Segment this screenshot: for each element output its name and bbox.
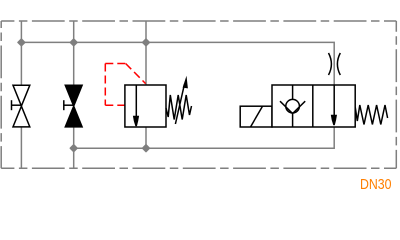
junction node E [142, 145, 149, 152]
valve U2 flow arrow [331, 85, 337, 125]
junction node D [70, 145, 77, 152]
pilot line (red dashed) [105, 64, 145, 106]
wire port stub P2 [73, 21, 75, 42]
orifice (restrictor) [329, 53, 341, 75]
relief valve U1 flow arrow [133, 85, 139, 126]
junction node A [18, 39, 25, 46]
solenoid Y1 [240, 106, 272, 127]
wire valve U2 top port [333, 85, 335, 127]
spring S2 [355, 105, 387, 125]
wire port stub P1 [20, 21, 22, 42]
shutoff valve V2 (closed, filled) [64, 85, 82, 127]
wire bottom bus [74, 127, 335, 148]
wire valve V1 vertical [20, 42, 22, 168]
enclosure dashed boundary [1, 21, 396, 168]
wire port stub P3 [145, 21, 147, 42]
spring S1 [166, 95, 192, 120]
check valve inside U2 [280, 85, 305, 127]
wire top bus [21, 42, 334, 85]
wire valve V3 vertical [145, 42, 147, 148]
svg-text:DN30: DN30 [360, 176, 392, 193]
junction node C [142, 39, 149, 46]
shutoff valve V1 [12, 85, 30, 127]
adjustment arrow S1 [175, 76, 188, 124]
relief valve U1 body [125, 85, 166, 127]
wire valve V2 vertical [73, 42, 75, 168]
valve U2 body [272, 85, 355, 127]
junction node B [70, 39, 77, 46]
